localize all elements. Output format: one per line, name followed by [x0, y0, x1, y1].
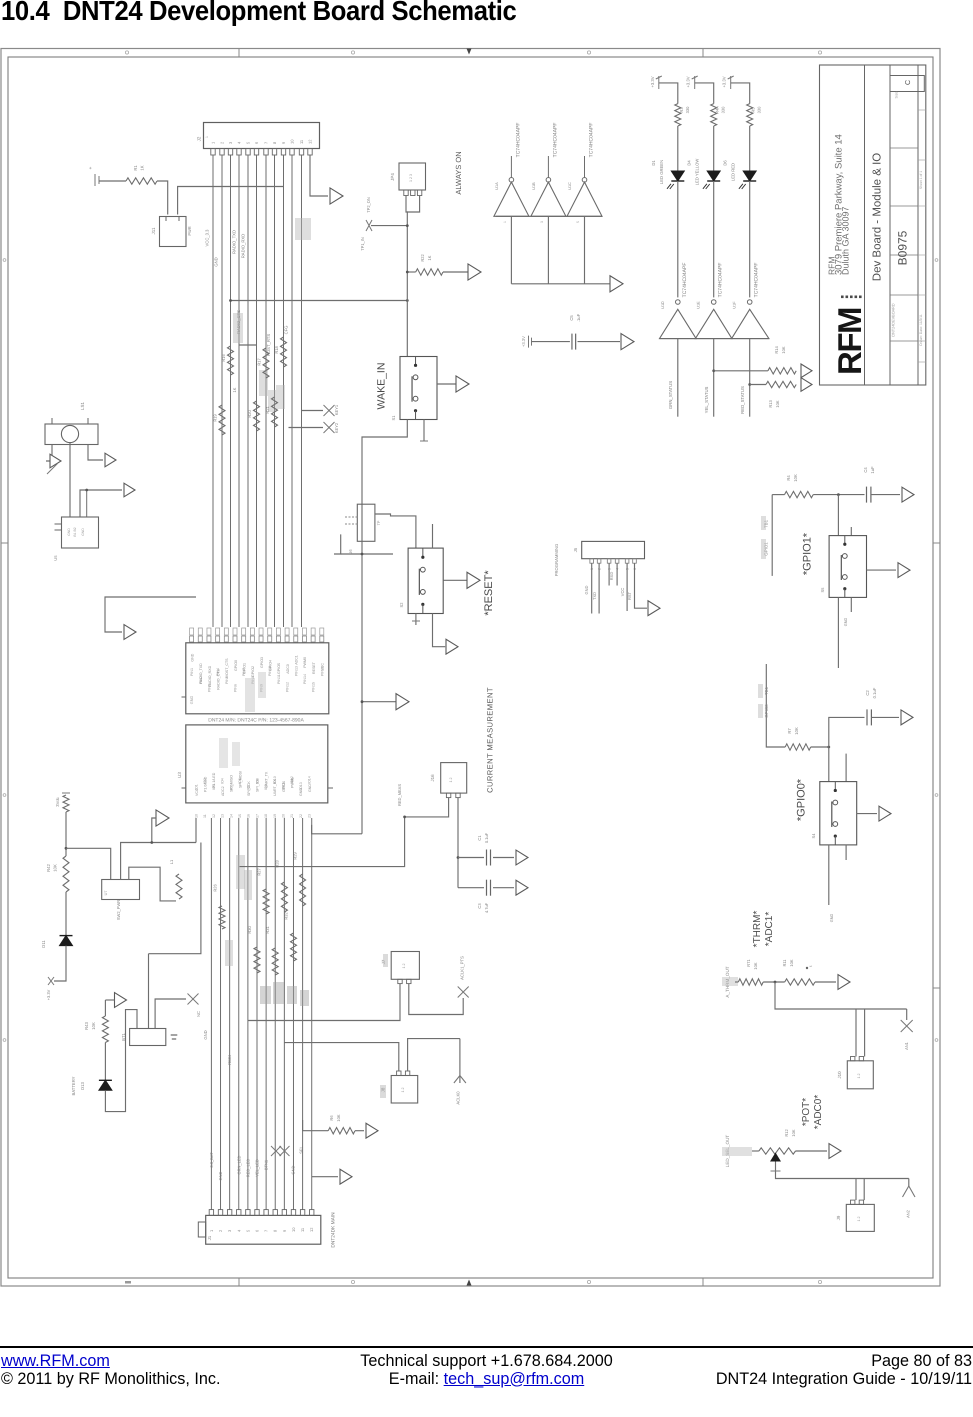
svg-text:VCC: VCC: [195, 788, 199, 796]
resistor R14 10K: [714, 346, 797, 374]
svg-text:GPIO0: GPIO0: [764, 704, 769, 718]
svg-text:ADC0: ADC0: [286, 664, 290, 674]
buzzer LS1: [45, 402, 98, 445]
svg-text:+3.3V: +3.3V: [46, 989, 51, 1000]
title block: Dev Board - Module & IO: [872, 153, 884, 282]
IC U5 supervisor: [53, 517, 99, 561]
resistor R4 10K: [785, 474, 814, 498]
svg-text:330: 330: [721, 106, 726, 113]
wire: [813, 493, 864, 496]
svg-text:10K: 10K: [53, 864, 58, 872]
svg-text:R26: R26: [213, 884, 218, 892]
svg-text:U5: U5: [53, 555, 58, 561]
svg-text:R6: R6: [329, 1115, 334, 1121]
svg-text:U1E: U1E: [697, 301, 701, 309]
svg-text:t: t: [808, 965, 813, 967]
switch S5 GPIO1 pushbutton: [820, 536, 867, 598]
svg-text:GND: GND: [830, 914, 834, 923]
module internal pin names B: [195, 738, 312, 796]
resistor R29: [293, 852, 306, 906]
svg-text:+3.3V: +3.3V: [650, 76, 655, 87]
no-connect X: [188, 994, 202, 1017]
svg-text:R4A: R4A: [715, 106, 720, 114]
svg-text:PWR: PWR: [187, 226, 192, 235]
svg-text:VCC: VCC: [321, 663, 325, 671]
inverter U1C TC74HC04APF: [496, 123, 602, 217]
resistor R21 1K: [265, 397, 278, 427]
IC U6: [345, 504, 381, 554]
title block company name and address: [827, 134, 851, 275]
wire: [104, 1000, 106, 1016]
resistor R20 1K: [247, 401, 260, 431]
svg-text:HOST_CTS: HOST_CTS: [225, 658, 229, 678]
svg-text:RADIO_CTS: RADIO_CTS: [216, 669, 220, 690]
module bottom pin numbers: [195, 814, 312, 818]
svg-text:JP4: JP4: [390, 173, 395, 181]
svg-text:+: +: [88, 166, 94, 169]
wire stub: [845, 754, 847, 782]
label DNT24DK: [331, 1212, 337, 1248]
svg-text:PWM0: PWM0: [303, 657, 307, 668]
wire: [906, 1009, 908, 1020]
svg-text:IO4: IO4: [221, 778, 225, 784]
inverter input bus: [660, 338, 769, 340]
wire: [837, 495, 839, 536]
svg-text:BATTERY: BATTERY: [71, 1076, 76, 1095]
svg-text:SW2_PWR: SW2_PWR: [116, 900, 121, 920]
svg-text:*ADC1*: *ADC1*: [764, 912, 775, 947]
wire: [155, 999, 186, 1029]
header J5 program: [573, 541, 645, 570]
no-connect X (bundle): [271, 1146, 290, 1156]
svg-text:1K: 1K: [232, 387, 237, 392]
wire: [731, 83, 750, 104]
svg-text:TC74HC04APF: TC74HC04APF: [682, 263, 688, 298]
header JP4: [390, 163, 426, 196]
LED D1: [0, 0, 684, 189]
wire: [713, 126, 715, 171]
wire: [766, 664, 785, 747]
off-page connector arrow: [801, 378, 812, 392]
svg-text:5: 5: [245, 1229, 250, 1232]
net labels J5: [554, 544, 632, 600]
inductor L1: [169, 859, 182, 899]
svg-text:R3: R3: [679, 107, 684, 113]
svg-text:10: 10: [290, 139, 295, 144]
inverter U1A TC74HC04APF: [494, 123, 529, 217]
svg-text:TP: TP: [377, 520, 381, 525]
resistor R5 330: [747, 104, 762, 126]
resistor R19 1K: [213, 405, 226, 435]
svg-text:4: 4: [236, 1229, 241, 1232]
inverter U1E TC74HC04APF: [695, 263, 732, 339]
off-page connector arrow: [366, 1123, 378, 1138]
wire: [659, 83, 678, 104]
wire: [46, 445, 52, 462]
svg-text:D1: D1: [651, 160, 656, 166]
svg-text:GND: GND: [844, 618, 848, 627]
wire: [284, 1043, 398, 1071]
svg-text:TC74HC04APF: TC74HC04APF: [553, 123, 559, 158]
wire: [178, 187, 284, 215]
svg-text:GPIO3: GPIO3: [260, 657, 264, 668]
wire: [749, 181, 751, 297]
resistor R30: [247, 926, 260, 973]
wire: [772, 495, 784, 576]
svg-text:UART_RX: UART_RX: [273, 779, 277, 796]
wire: [312, 1176, 338, 1178]
svg-text:10K: 10K: [753, 962, 758, 969]
off-page connector arrow: [801, 364, 812, 378]
resistor R6 10K: [303, 1114, 364, 1134]
svg-text:Sheet 1 of 1: Sheet 1 of 1: [919, 171, 923, 189]
svg-text:*GPIO1*: *GPIO1*: [802, 532, 814, 575]
junction: [361, 553, 364, 556]
svg-text:TC74HC04APF: TC74HC04APF: [718, 263, 724, 298]
svg-text:7: 7: [264, 141, 269, 144]
power flag +3.3V (top left): [88, 166, 99, 186]
module U3 pin row (top): [190, 628, 324, 642]
off-page connector arrow: [105, 453, 116, 467]
no-connect X (KEY2): [289, 422, 340, 433]
svg-text:*ADC0*: *ADC0*: [813, 1095, 824, 1130]
diode D11: [41, 936, 73, 948]
svg-text:P1.0/LED: P1.0/LED: [204, 776, 208, 792]
svg-text:2: 2: [220, 141, 225, 144]
LED D4: [0, 0, 720, 189]
no-connect X (ANT1): [901, 1020, 913, 1050]
wire: [867, 569, 897, 571]
off-page connector arrow: [396, 694, 409, 710]
svg-text:20: 20: [282, 814, 286, 818]
svg-text:3: 3: [228, 141, 233, 144]
svg-text:Drawn: Date: 11/2/11: Drawn: Date: 11/2/11: [919, 314, 923, 346]
svg-text:5: 5: [246, 141, 251, 144]
wire: [65, 812, 68, 856]
svg-text:NC: NC: [196, 1011, 201, 1017]
wire: [713, 181, 715, 297]
wire: [88, 445, 103, 461]
svg-text:3Vdc: 3Vdc: [55, 797, 60, 807]
svg-text:U1A: U1A: [495, 182, 499, 190]
svg-text:TC74HC04APF: TC74HC04APF: [754, 263, 760, 298]
svg-text:0.1uF: 0.1uF: [484, 832, 489, 843]
svg-text:R20: R20: [247, 410, 252, 418]
capacitor C4 1uF: [863, 466, 900, 503]
svg-text:GND: GND: [81, 528, 85, 536]
label (sense net): [397, 784, 402, 806]
wire bundle J2 to module: [213, 155, 302, 627]
svg-text:18: 18: [264, 814, 268, 818]
net labels (J2 bundle): [205, 229, 289, 356]
svg-text:RESET: RESET: [312, 661, 316, 674]
wire: [856, 1009, 865, 1057]
svg-text:3.3_BAT: 3.3_BAT: [209, 1152, 214, 1168]
svg-text:LED GREEN: LED GREEN: [659, 160, 664, 184]
diode D13: [71, 1076, 112, 1095]
svg-text:GND: GND: [203, 1030, 208, 1039]
svg-text:R29: R29: [293, 852, 298, 860]
svg-text:1 2: 1 2: [402, 964, 406, 969]
svg-text:1 2 3: 1 2 3: [409, 174, 413, 182]
net label: [722, 966, 738, 997]
off-page connector arrow: [150, 810, 169, 844]
svg-text:RED_MEAS: RED_MEAS: [397, 784, 402, 806]
wire: [815, 981, 836, 983]
wire: [829, 845, 834, 922]
svg-text:PIN15: PIN15: [312, 682, 316, 692]
svg-text:RADIO_RXD: RADIO_RXD: [241, 234, 246, 258]
svg-text:10K: 10K: [91, 1022, 96, 1030]
svg-text:R27: R27: [257, 868, 262, 876]
connector J11 power jack: [151, 217, 192, 247]
wire pin12 to off-page: [310, 155, 328, 196]
svg-text:22: 22: [299, 814, 303, 818]
svg-text:GRN_LED: GRN_LED: [237, 1155, 242, 1174]
svg-text:+3.3V: +3.3V: [722, 76, 727, 87]
capacitor C1 0.1uF: [458, 832, 514, 865]
svg-text:C3: C3: [477, 903, 482, 909]
svg-text:1: 1: [211, 141, 216, 144]
svg-text:6: 6: [255, 1229, 260, 1232]
svg-text:YEL_LED: YEL_LED: [255, 1159, 260, 1177]
capacitor C2 0.1uF: [865, 687, 899, 725]
svg-text:J9: J9: [836, 1215, 841, 1220]
resistor R13 10K: [750, 381, 797, 407]
svg-text:GND: GND: [308, 784, 312, 792]
svg-text:RXD: RXD: [609, 572, 614, 581]
off-page connector arrow: [610, 276, 623, 292]
connector J16 current sense: [430, 763, 467, 798]
connector J7: [381, 952, 419, 984]
svg-text:*GPIO0*: *GPIO0*: [796, 778, 808, 821]
svg-text:C1: C1: [477, 835, 482, 841]
svg-text:17: 17: [255, 814, 259, 818]
LED D6: [0, 0, 756, 189]
wire: [837, 597, 839, 668]
svg-text:21: 21: [290, 814, 294, 818]
svg-text:BTN1: BTN1: [264, 1159, 269, 1170]
svg-text:1: 1: [503, 221, 507, 223]
svg-text:TC74HC04APF: TC74HC04APF: [516, 123, 522, 158]
svg-text:RADIO_TXD: RADIO_TXD: [232, 230, 237, 254]
svg-text:330: 330: [685, 106, 690, 113]
svg-text:D11: D11: [41, 940, 46, 948]
svg-text:DNT24DK MAIN: DNT24DK MAIN: [331, 1212, 337, 1248]
wire: [748, 339, 751, 417]
wire: [712, 339, 715, 417]
switch S2 RESET pushbutton: [399, 548, 443, 613]
svg-text:J10: J10: [837, 1071, 842, 1079]
svg-text:R4: R4: [786, 475, 791, 481]
svg-text:14: 14: [229, 814, 233, 818]
wire stub: [850, 527, 852, 536]
off-page connector arrow: [47, 454, 61, 474]
wire: [432, 524, 434, 548]
label ALWAYS ON: [454, 151, 463, 194]
svg-text:WAKE_IN: WAKE_IN: [376, 363, 388, 410]
svg-text:U1F: U1F: [733, 301, 737, 309]
svg-text:GND: GND: [218, 1171, 223, 1180]
off-page connector arrow: [621, 334, 634, 350]
wire: [407, 196, 419, 213]
svg-text:S5: S5: [820, 587, 825, 593]
svg-text:BT1: BT1: [121, 1032, 126, 1040]
off-page connector arrow: [648, 601, 660, 616]
svg-text:R22: R22: [420, 254, 425, 262]
wire: [157, 181, 168, 215]
power flag +3.3V (LED D6): [722, 76, 734, 89]
wire jog: [239, 344, 257, 346]
svg-text:RED_LED: RED_LED: [246, 1159, 251, 1178]
wire: [677, 339, 679, 417]
RFM logo: [831, 296, 868, 376]
svg-text:GND: GND: [214, 257, 219, 266]
svg-text:R42: R42: [46, 863, 51, 871]
wire: [69, 443, 71, 517]
svg-text:*THRM*: *THRM*: [752, 911, 763, 948]
svg-text:CURRENT MEASUREMENT: CURRENT MEASUREMENT: [486, 687, 495, 793]
antenna symbol ANT2: [903, 1179, 916, 1218]
connector J1 (bottom header): [198, 1210, 320, 1245]
svg-text:C5: C5: [569, 315, 574, 321]
switch S4 GPIO0 pushbutton: [811, 782, 857, 845]
svg-text:RADIO_TXD: RADIO_TXD: [199, 663, 203, 684]
svg-text:ADC2: ADC2: [221, 786, 225, 796]
wire: [80, 489, 122, 517]
wire: [829, 717, 865, 747]
svg-text:8: 8: [272, 141, 277, 144]
resistor R43 10K: [84, 1016, 108, 1043]
svg-text:1 2: 1 2: [857, 1074, 861, 1079]
label WAKE_IN: [376, 363, 397, 421]
svg-text:10: 10: [291, 1227, 296, 1232]
wire stub: [845, 845, 847, 860]
test point TP1: [360, 220, 409, 251]
power flag +3.3V (LED D4): [686, 76, 698, 89]
svg-text:PIN6: PIN6: [234, 684, 238, 692]
svg-text:RFM: RFM: [831, 308, 868, 375]
svg-text:R43: R43: [84, 1021, 89, 1029]
wire: [811, 746, 830, 749]
svg-text:GPIO0: GPIO0: [234, 660, 238, 671]
wire: [312, 825, 362, 834]
svg-text:11: 11: [203, 814, 207, 818]
off-page connector arrow: [330, 188, 343, 204]
svg-text:U1C: U1C: [568, 182, 572, 190]
svg-text:R31: R31: [265, 926, 270, 934]
svg-text:D4: D4: [687, 160, 692, 166]
svg-text:AN2: AN2: [906, 1209, 911, 1218]
svg-text:R1: R1: [133, 165, 138, 171]
svg-text:S1: S1: [391, 415, 396, 421]
net label: [722, 1135, 759, 1168]
svg-text:Size: Size: [895, 92, 899, 99]
svg-text:+3.3V: +3.3V: [686, 76, 691, 87]
wire: [54, 946, 66, 981]
svg-text:9: 9: [281, 141, 286, 144]
svg-text:15: 15: [238, 814, 242, 818]
off-page connector arrow: [467, 572, 480, 588]
svg-text:SPI_MISO: SPI_MISO: [230, 775, 234, 792]
svg-text:R32: R32: [284, 912, 289, 920]
inverter U1B TC74HC04APF: [531, 123, 566, 217]
wire: [105, 1010, 137, 1112]
svg-text:0.1uF: 0.1uF: [872, 687, 877, 698]
wire: [828, 747, 830, 782]
svg-text:6: 6: [254, 141, 259, 144]
svg-text:PIN13: PIN13: [294, 666, 298, 676]
svg-text:D6: D6: [723, 160, 728, 166]
wire: [129, 867, 176, 901]
wire: [796, 1150, 828, 1152]
off-page connector arrow: [902, 487, 914, 502]
svg-text:GND: GND: [190, 653, 194, 661]
label *GPIO0*: [796, 778, 808, 821]
off-page connector arrow: [516, 880, 528, 895]
svg-text:10K: 10K: [781, 346, 786, 353]
wire (loop to off-page): [105, 597, 196, 632]
wire: [375, 514, 416, 548]
svg-text:SPI_CLK: SPI_CLK: [247, 781, 251, 796]
wire (sense loop): [240, 798, 449, 867]
module U3 (radio) part B: [177, 725, 333, 803]
wire: [409, 984, 463, 1015]
svg-text:3: 3: [227, 1229, 232, 1232]
labels *POT* *ADC0*: [801, 1095, 824, 1130]
svg-text:4: 4: [237, 141, 242, 144]
svg-text:PIN1: PIN1: [190, 668, 194, 676]
off-page connector arrow: [901, 710, 913, 725]
capacitor C3 4.7uF: [458, 880, 514, 913]
svg-text:J5: J5: [573, 547, 578, 552]
svg-text:1uF: 1uF: [870, 466, 875, 474]
svg-text:1K: 1K: [140, 165, 145, 170]
capacitor C5 .1uF: [532, 313, 621, 349]
svg-text:GND: GND: [190, 696, 194, 705]
label RED_STATUS: [366, 197, 371, 213]
svg-text:LED YELLOW: LED YELLOW: [695, 159, 700, 186]
svg-text:TB1: TB1: [764, 686, 769, 695]
off-page connector arrow: [124, 625, 136, 640]
svg-text:12: 12: [308, 139, 313, 144]
wires J5: [592, 563, 647, 613]
wire (bus to wake circuit): [229, 299, 409, 302]
resistor R32: [284, 912, 297, 961]
connector J9 potentiometer: [836, 1200, 874, 1231]
svg-text:R16: R16: [221, 354, 226, 362]
svg-text:GND: GND: [299, 788, 303, 796]
svg-text:23: 23: [308, 814, 312, 818]
svg-text:SPI_SS: SPI_SS: [256, 779, 260, 792]
svg-text:PROGRAMMING: PROGRAMMING: [554, 544, 559, 577]
label *GPIO1*: [802, 532, 814, 575]
svg-text:S2: S2: [399, 602, 404, 608]
wire: [677, 126, 679, 171]
svg-text:R12: R12: [784, 1129, 789, 1137]
wire: [406, 196, 407, 357]
pin numbers: [503, 221, 580, 223]
svg-text:10K: 10K: [794, 727, 799, 735]
svg-text:KEY1: KEY1: [334, 404, 339, 415]
svg-text:10K: 10K: [336, 1114, 341, 1121]
resistor R3 330: [675, 104, 690, 126]
svg-text:LS1: LS1: [80, 402, 85, 411]
svg-text:TC74HC04APF: TC74HC04APF: [589, 123, 595, 158]
off-page connector arrow: [446, 639, 458, 654]
svg-text:J2: J2: [197, 136, 202, 141]
off-page connector arrow: [516, 850, 528, 865]
